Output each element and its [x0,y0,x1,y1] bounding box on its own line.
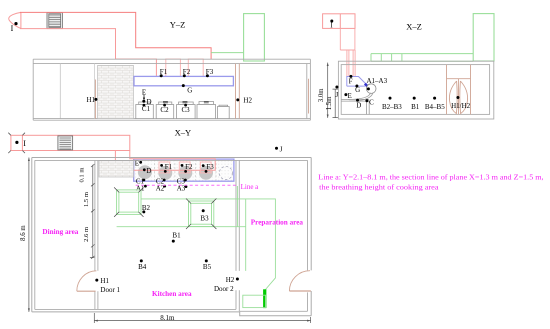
exhaust duct lower line [20,29,156,77]
svg-text:F3: F3 [206,163,214,171]
blue inlet nub [365,84,368,87]
node C2 (plan) [163,179,166,182]
wok circle 4 [199,166,213,180]
node C3 (plan) [184,179,187,182]
svg-text:C3: C3 [182,106,191,114]
svg-text:Kitchen area: Kitchen area [152,290,192,298]
outer wall (plan) [32,158,311,316]
svg-text:1.5 m: 1.5 m [83,191,90,207]
node C (X-Z) [365,99,368,102]
node B3 [202,209,205,212]
brick wall segment (plan) [99,161,134,177]
node F1 [160,74,163,77]
green supply duct box (X-Z) [473,14,494,61]
grille / filter in duct [47,13,62,29]
section line a (magenta dashed) [136,184,238,186]
counter unit 3 [177,102,196,119]
svg-text:2.6 m: 2.6 m [83,226,90,242]
counter unit 4 [197,102,216,119]
svg-text:F1: F1 [165,163,173,171]
right exterior door leaf and arc (tan) [289,290,311,292]
node E (plan) [139,161,142,164]
dashed spare circle [219,166,232,179]
dining/kitchen partition wall [95,160,98,309]
svg-text:3.0m: 3.0m [318,88,325,102]
node J (plan) [275,147,278,150]
svg-text:E: E [347,92,351,100]
grille in plan duct [58,136,73,150]
svg-text:8.1m: 8.1m [160,314,175,322]
node F3 (plan) [202,164,205,167]
node H2 (plan) [236,278,239,281]
node F2 [183,74,186,77]
node F3 [206,74,209,77]
svg-text:Door 2: Door 2 [214,285,234,293]
svg-text:F3: F3 [206,68,214,76]
kitchen/preparation partition wall [236,160,239,311]
wok circle 3 [178,166,192,180]
duct riser bridge F1-F2 [166,59,181,76]
node B1 (X-Z) [413,97,416,100]
door 1 leaf (tan) in section [94,80,96,119]
svg-text:H1: H1 [100,277,109,285]
dining/kitchen partition line [93,64,95,119]
interior wall line (section of plan left wall) [59,64,61,119]
node H1/H2 (X-Z) [456,96,459,99]
hood section dividers [155,159,216,181]
kitchen/preparation tan partition [236,64,240,119]
node A3 (plan) [185,185,188,188]
node B4-B5 (X-Z) [433,97,436,100]
node G (Y-Z) [182,84,185,87]
svg-text:F: F [349,78,353,86]
exhaust duct upper line [20,12,211,59]
svg-text:Line a: Y=2.1–8.1 m, the sect: Line a: Y=2.1–8.1 m, the section line of… [318,174,544,182]
counter unit 2 [156,102,174,119]
node I (plan) [15,141,18,144]
blue hood outline (X-Z) [347,77,367,87]
curved duct arcs [348,93,373,101]
door 1 leaf and swing arc (tan) [77,290,96,292]
table B3 [186,199,216,230]
red duct elbow into hood [115,151,215,171]
node B5 [205,259,208,262]
bright green strip [263,289,266,308]
svg-text:F2: F2 [183,68,191,76]
inner wall (plan) [35,160,308,311]
node D (Y-Z) [142,100,145,103]
node C1 (Y-Z) [143,104,146,107]
svg-text:Preparation area: Preparation area [251,219,304,227]
svg-text:C: C [369,99,374,107]
hatched column (dining/kitchen wall) [98,65,134,118]
svg-text:I: I [23,139,26,148]
double door elevation (tan) [447,65,471,115]
green supply duct box [244,14,265,61]
room inner wall (X-Z) [341,65,489,115]
svg-text:G: G [355,86,360,94]
dimension 8.1m [94,320,310,322]
svg-text:B1: B1 [411,103,420,111]
svg-text:Y–Z: Y–Z [170,20,186,30]
node B2-B3 (X-Z) [389,97,392,100]
svg-text:0.1 m: 0.1 m [79,167,86,183]
node C1 (plan) [143,179,146,182]
svg-text:G: G [187,87,192,95]
green supply line [211,52,244,54]
node F1 (plan) [160,164,163,167]
svg-text:Dining area: Dining area [42,228,78,236]
range hood (blue) [134,76,233,85]
burner marks (=) [163,101,209,102]
room outer wall (X-Z) [338,61,493,119]
node H2 (Y-Z) [236,98,239,101]
supply duct (plan, red) [11,135,130,150]
dimension 8.6 m [28,158,30,312]
exhaust fan box (red) [323,14,355,29]
svg-text:C1: C1 [142,105,151,113]
svg-text:H2: H2 [226,276,235,284]
node B4 [140,259,143,262]
node F (X-Z) [349,75,352,78]
duct riser square F2 [179,162,190,173]
node I (X-Z) [330,20,333,23]
node A2 (plan) [163,185,166,188]
duct riser bridge F2-F3 [188,59,203,76]
wok center dot 4 [205,170,208,173]
table B2 [114,187,143,217]
svg-text:I: I [11,24,14,33]
node D (X-Z) [356,99,359,102]
node B2 [142,210,145,213]
node A1 (plan) [144,185,147,188]
node E (X-Z) [344,93,347,96]
node G (X-Z) [355,85,358,88]
svg-text:J: J [336,91,339,99]
node B1 [172,240,175,243]
node H1 (plan) [95,279,98,282]
svg-text:B3: B3 [200,214,209,222]
svg-text:B2: B2 [142,204,151,212]
corner break ticks on fan box [8,133,25,153]
node I (Y-Z) [14,22,17,25]
svg-text:C2: C2 [160,106,169,114]
svg-text:1.5m: 1.5m [326,96,333,110]
red exhaust drop duct [340,28,355,76]
tan door line in right wall [308,79,310,114]
svg-text:the breathing height of cookin: the breathing height of cooking area [319,183,439,191]
dimension 1.5m [333,89,338,118]
wok circle 1 [138,165,152,179]
svg-text:B2–B3: B2–B3 [382,103,402,111]
svg-text:X–Z: X–Z [406,22,422,32]
preparation area boundary (green) [141,199,275,308]
counter (X-Z) [341,99,369,114]
svg-text:F1: F1 [160,68,168,76]
counter unit 1 [136,102,154,119]
inner dimension line with ticks [92,165,94,258]
svg-text:D: D [356,102,361,110]
svg-text:Line a: Line a [241,183,260,191]
svg-text:Door 1: Door 1 [100,286,120,294]
room ceiling slab [33,59,310,63]
room left wall [32,59,34,120]
svg-text:8.6 m: 8.6 m [20,225,27,241]
wok center dot 3 [184,170,187,173]
node A1-A3 (X-Z) [367,87,370,90]
svg-text:X–Y: X–Y [175,128,192,138]
wok center dot 2 [164,170,167,173]
svg-text:D: D [146,167,151,175]
hood outline (plan, blue) [134,159,234,181]
svg-text:H1: H1 [87,96,96,104]
room right wall [307,59,311,120]
duct riser square F1 [159,162,170,173]
green cabinet box [243,295,266,307]
svg-text:H2: H2 [243,96,252,104]
svg-text:B4: B4 [138,263,147,271]
green supply hood cells [371,54,473,62]
node C3 (Y-Z) [184,104,187,107]
svg-text:H1/H2: H1/H2 [451,102,471,110]
svg-text:B1: B1 [172,231,181,239]
node C2 (Y-Z) [163,104,166,107]
svg-text:J: J [280,146,283,154]
node F2 (plan) [181,164,184,167]
fan scroll circle [366,84,376,94]
svg-text:B4–B5: B4–B5 [425,103,445,111]
exhaust fan housing (rounded nose duct) [9,12,21,28]
node D (plan) [143,168,146,171]
counter unit 5 [218,105,230,118]
svg-text:B5: B5 [203,263,212,271]
svg-text:A1–A3: A1–A3 [366,77,387,85]
svg-text:F2: F2 [185,163,193,171]
wok circle 2 [158,166,172,180]
node J (X-Z) [335,86,338,89]
duct riser square F3 [200,162,211,173]
dimension 3.0m [327,63,329,118]
room floor [33,119,310,121]
node H1 (Y-Z) [94,98,97,101]
